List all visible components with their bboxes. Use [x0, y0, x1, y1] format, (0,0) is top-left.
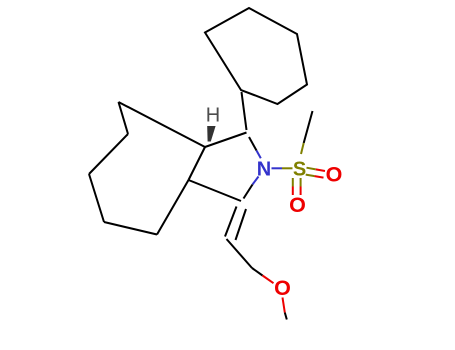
S=O right, red halves — [316, 169, 325, 171]
S=O down, olive halves — [292, 178, 294, 187]
bond C3a-C9b — [189, 147, 206, 180]
svg-text:H: H — [206, 105, 220, 127]
exocyclic C3=CH double bond — [225, 207, 237, 237]
bond X-Y — [104, 222, 157, 235]
bond C9b-C1 — [205, 133, 247, 148]
S-CH3 lower stub — [301, 143, 304, 154]
O-CH3 red part — [283, 298, 285, 313]
S-colored half bonds — [282, 143, 316, 187]
bond Y-C3a — [157, 180, 189, 235]
stereo wedge at C9b — [207, 126, 215, 142]
svg-text:O: O — [326, 162, 343, 186]
bond C1 to ring — [242, 92, 247, 130]
O-CH3 lower part — [285, 313, 287, 320]
chain CHb to O (carbon part) — [252, 268, 263, 276]
bond C3-C3a — [189, 180, 242, 201]
C1-N lower half — [257, 151, 261, 159]
S=O right, olive halves — [307, 168, 316, 170]
chain CHa-CHb — [227, 239, 253, 268]
left cage long bond LA-C9b — [119, 102, 206, 147]
S=O down, red halves — [292, 187, 294, 196]
top cyclohexyl ring — [205, 8, 307, 104]
N-S bond right half — [282, 167, 293, 169]
N-colored half bonds — [253, 151, 283, 185]
O-colored bond parts — [263, 169, 326, 312]
bond LA-V — [119, 102, 129, 134]
N-C3 lower part black — [244, 185, 253, 199]
N-S bond left half — [272, 167, 283, 169]
S-CH3 upper part — [304, 111, 313, 143]
bond W-X — [89, 174, 104, 222]
N-C3 upper half — [253, 177, 259, 185]
svg-text:N: N — [257, 159, 271, 181]
bond V-W — [89, 134, 128, 174]
svg-text:S: S — [293, 159, 306, 181]
svg-text:O: O — [289, 193, 306, 217]
bond C1-N upper part — [249, 137, 257, 151]
CHb-O red part — [263, 276, 274, 284]
svg-text:O: O — [274, 276, 291, 300]
